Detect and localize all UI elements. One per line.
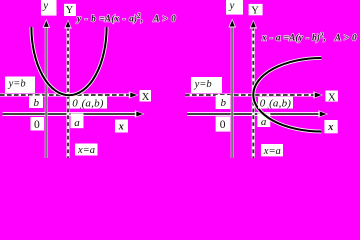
svg-text:x=a: x=a [77, 145, 95, 156]
label box x=a (right graph) [261, 144, 283, 156]
label box 0 (left graph origin) [31, 117, 45, 131]
Y-axis (translated, dashed vertical) [67, 27, 69, 158]
label box X (right graph) [325, 91, 338, 102]
label box Y (right graph) [249, 4, 263, 15]
svg-text:X: X [328, 93, 336, 104]
Y-axis right arrowhead [250, 20, 258, 29]
x-axis right (solid) [187, 113, 321, 115]
x-axis right (solid) white underlay [187, 112, 321, 116]
label box y (left graph) [41, 0, 57, 16]
sideways parabola x-a=A(y-b)^2 [253, 58, 321, 132]
y-axis right arrowhead [228, 19, 236, 28]
svg-text:0 ,(a,b): 0 ,(a,b) [72, 98, 103, 111]
X-axis (translated, dashed) [0, 94, 131, 96]
label box x=a (left graph) [75, 144, 98, 156]
sideways parabola x-a=A(y-b)^2 white underlay [253, 58, 321, 132]
label box x (right graph) [324, 120, 337, 133]
parabola y-b=A(x-a)^2 white underlay [31, 27, 106, 95]
y-axis arrowhead [42, 19, 50, 28]
svg-text:y=b: y=b [8, 79, 26, 90]
label box y=b (left graph) [5, 77, 35, 94]
label box b (right graph) [216, 95, 231, 109]
X-axis right arrowhead [313, 91, 323, 98]
svg-text:y - b =A(x - a)2, A > 0: y - b =A(x - a)2, A > 0 [76, 13, 176, 24]
svg-text:X: X [142, 92, 150, 103]
x-axis (original, solid) white underlay [3, 112, 138, 116]
label box Y (left graph) [64, 4, 76, 16]
label box X (left graph) [140, 90, 152, 102]
svg-text:Y: Y [66, 5, 74, 16]
label box x (left graph) [115, 120, 128, 133]
svg-text:x - a =A(y - b)2, A > 0: x - a =A(y - b)2, A > 0 [261, 32, 357, 43]
svg-text:a: a [74, 117, 80, 129]
label box 0 (right graph origin) [216, 116, 231, 131]
svg-text:0 ,(a,b): 0 ,(a,b) [260, 98, 291, 111]
svg-text:0: 0 [34, 119, 40, 131]
svg-text:b: b [34, 97, 40, 109]
svg-text:0: 0 [220, 119, 226, 131]
label box a (under dashed Y axis) [71, 113, 84, 128]
X-axis arrowhead [129, 91, 139, 98]
y-axis (original, gray vertical) [45, 25, 47, 158]
X-axis right (dashed) [185, 94, 316, 96]
label box b (left graph) [29, 96, 43, 109]
y-axis (original, gray vertical) white underlay [45, 26, 48, 158]
x-axis (original, solid) [3, 113, 138, 115]
svg-text:y=b: y=b [194, 79, 212, 90]
label box y (right graph) [226, 0, 243, 15]
parabola y-b=A(x-a)^2 [31, 27, 106, 95]
svg-text:x: x [118, 122, 124, 133]
y-axis right (gray vertical) white underlay [230, 26, 233, 158]
Y-axis arrowhead [64, 20, 72, 29]
X-axis right (dashed) white underlay [185, 94, 316, 97]
X-axis (translated, dashed) white underlay [0, 94, 131, 97]
x-axis arrowhead [135, 110, 145, 117]
label box a (right graph) [257, 113, 270, 127]
svg-text:y: y [229, 0, 235, 12]
Y-axis right (dashed vertical) [252, 27, 254, 158]
svg-text:Y: Y [251, 5, 259, 16]
label box y=b (right graph) [191, 77, 222, 93]
label box 0,(a,b) vertex (left graph) [70, 96, 107, 109]
Y-axis right (dashed vertical) white underlay [252, 27, 255, 158]
svg-text:x=a: x=a [263, 146, 281, 157]
svg-text:x: x [327, 122, 333, 133]
x-axis right arrowhead [318, 110, 328, 117]
svg-text:y: y [42, 0, 48, 12]
Y-axis (translated, dashed vertical) white underlay [67, 27, 70, 158]
y-axis right (gray vertical) [231, 25, 233, 158]
svg-text:b: b [221, 97, 227, 109]
label box 0,(a,b) vertex (right graph) [258, 97, 293, 109]
